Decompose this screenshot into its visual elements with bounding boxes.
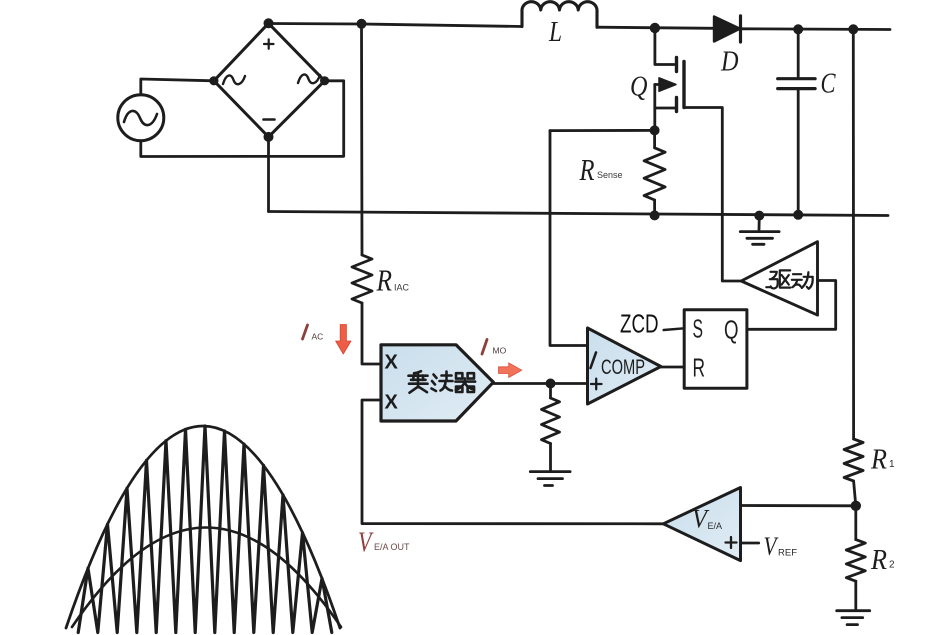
current arrow I_MO (499, 363, 522, 378)
driver amp U2 (741, 242, 817, 315)
inductor L (522, 2, 597, 28)
svg-text:MO: MO (493, 346, 507, 356)
svg-text:AC: AC (312, 332, 324, 342)
node: bridge corners (209, 18, 329, 142)
wire: ground bus (269, 212, 889, 216)
wire: ZCD stub (664, 328, 685, 330)
svg-text:1: 1 (889, 459, 895, 470)
svg-text:R: R (870, 445, 887, 476)
multiplier 乘法器 (381, 345, 493, 421)
wire: multiplier lower input / V_EAOUT run (362, 400, 663, 524)
diode D (714, 17, 740, 42)
svg-text:E/A OUT: E/A OUT (374, 542, 410, 552)
wire: multiplier output to comparator + input (493, 382, 587, 385)
ramp resistor (549, 384, 552, 399)
node: R_sense bottom on bus (650, 210, 660, 220)
wire: top rail middle segment (597, 27, 714, 28)
svg-text:Sense: Sense (597, 170, 623, 180)
svg-text:R: R (376, 263, 392, 298)
wire: V_REF stub (741, 542, 759, 545)
svg-text:C: C (821, 68, 837, 100)
waveform: peak envelope (66, 426, 340, 628)
svg-text:IAC: IAC (394, 283, 410, 293)
svg-text:REF: REF (778, 548, 797, 559)
SR latch U3 (684, 310, 747, 389)
resistor R_IAC (360, 24, 363, 255)
svg-text:R: R (870, 545, 887, 576)
svg-text:2: 2 (889, 560, 895, 571)
waveform: average current (72, 528, 341, 628)
capacitor C (797, 29, 800, 76)
resistor R1 (844, 439, 863, 481)
current arrow I_AC (336, 325, 351, 355)
wire: right output rail (852, 29, 855, 439)
svg-text:V: V (764, 532, 780, 561)
svg-text:E/A: E/A (708, 521, 723, 531)
label 乘法器 (409, 371, 476, 393)
wire: comparator output to R (661, 366, 684, 369)
svg-text:R: R (579, 152, 595, 187)
comparator COMP (588, 328, 661, 404)
wire: AC source bottom loop to bridge right corner (141, 81, 344, 157)
svg-text:V: V (358, 527, 374, 559)
svg-text:S: S (693, 316, 704, 344)
wire: R_sense top link (550, 129, 655, 132)
svg-text:D: D (720, 46, 738, 78)
node: ramp junction (546, 379, 556, 389)
wire: V_EA output to divider tap (741, 504, 856, 507)
node: capacitor bottom on bus (793, 210, 803, 220)
node: right rail top junction (848, 24, 858, 34)
resistor R2 (854, 506, 857, 540)
label I_AC (red) (303, 325, 308, 339)
label I_MO (red) (482, 340, 487, 355)
ground: ramp ground (530, 472, 570, 486)
node: ground tap on bus (754, 211, 764, 221)
svg-text:Q: Q (724, 317, 739, 345)
wire: driver feedback loop (latch Q to driver input) (747, 281, 836, 330)
svg-text:R: R (693, 355, 706, 383)
AC source (118, 95, 164, 141)
node: top rail / R_IAC tap (357, 19, 367, 29)
svg-text:L: L (548, 17, 562, 48)
wire: gate run to driver (684, 108, 741, 282)
wire: current sense to comparator (550, 131, 588, 346)
node: source/R_sense junction (650, 125, 660, 135)
svg-text:X: X (385, 352, 399, 374)
svg-text:Q: Q (630, 71, 648, 103)
ground: bus ground (758, 216, 761, 230)
svg-text:ZCD: ZCD (620, 309, 659, 339)
node: capacitor top junction (793, 24, 803, 34)
resistor Rsense (653, 130, 656, 147)
svg-text:COMP: COMP (601, 356, 645, 379)
wire: bridge minus drop (267, 137, 270, 212)
svg-text:X: X (385, 392, 399, 414)
bridge rectifier BR1 (214, 23, 325, 137)
ground: R2 ground (837, 611, 870, 625)
node: drain junction (650, 23, 660, 33)
wire: top rail right segment (741, 27, 891, 31)
node: divider tap (851, 501, 861, 511)
MOSFET Q (655, 28, 674, 65)
label 驱动 (766, 270, 813, 288)
wire: top rail left segment (269, 24, 523, 27)
error amplifier V_EA (663, 488, 740, 561)
waveform: inductor current teeth (78, 426, 332, 633)
wire: AC source top to bridge left corner (141, 79, 214, 95)
